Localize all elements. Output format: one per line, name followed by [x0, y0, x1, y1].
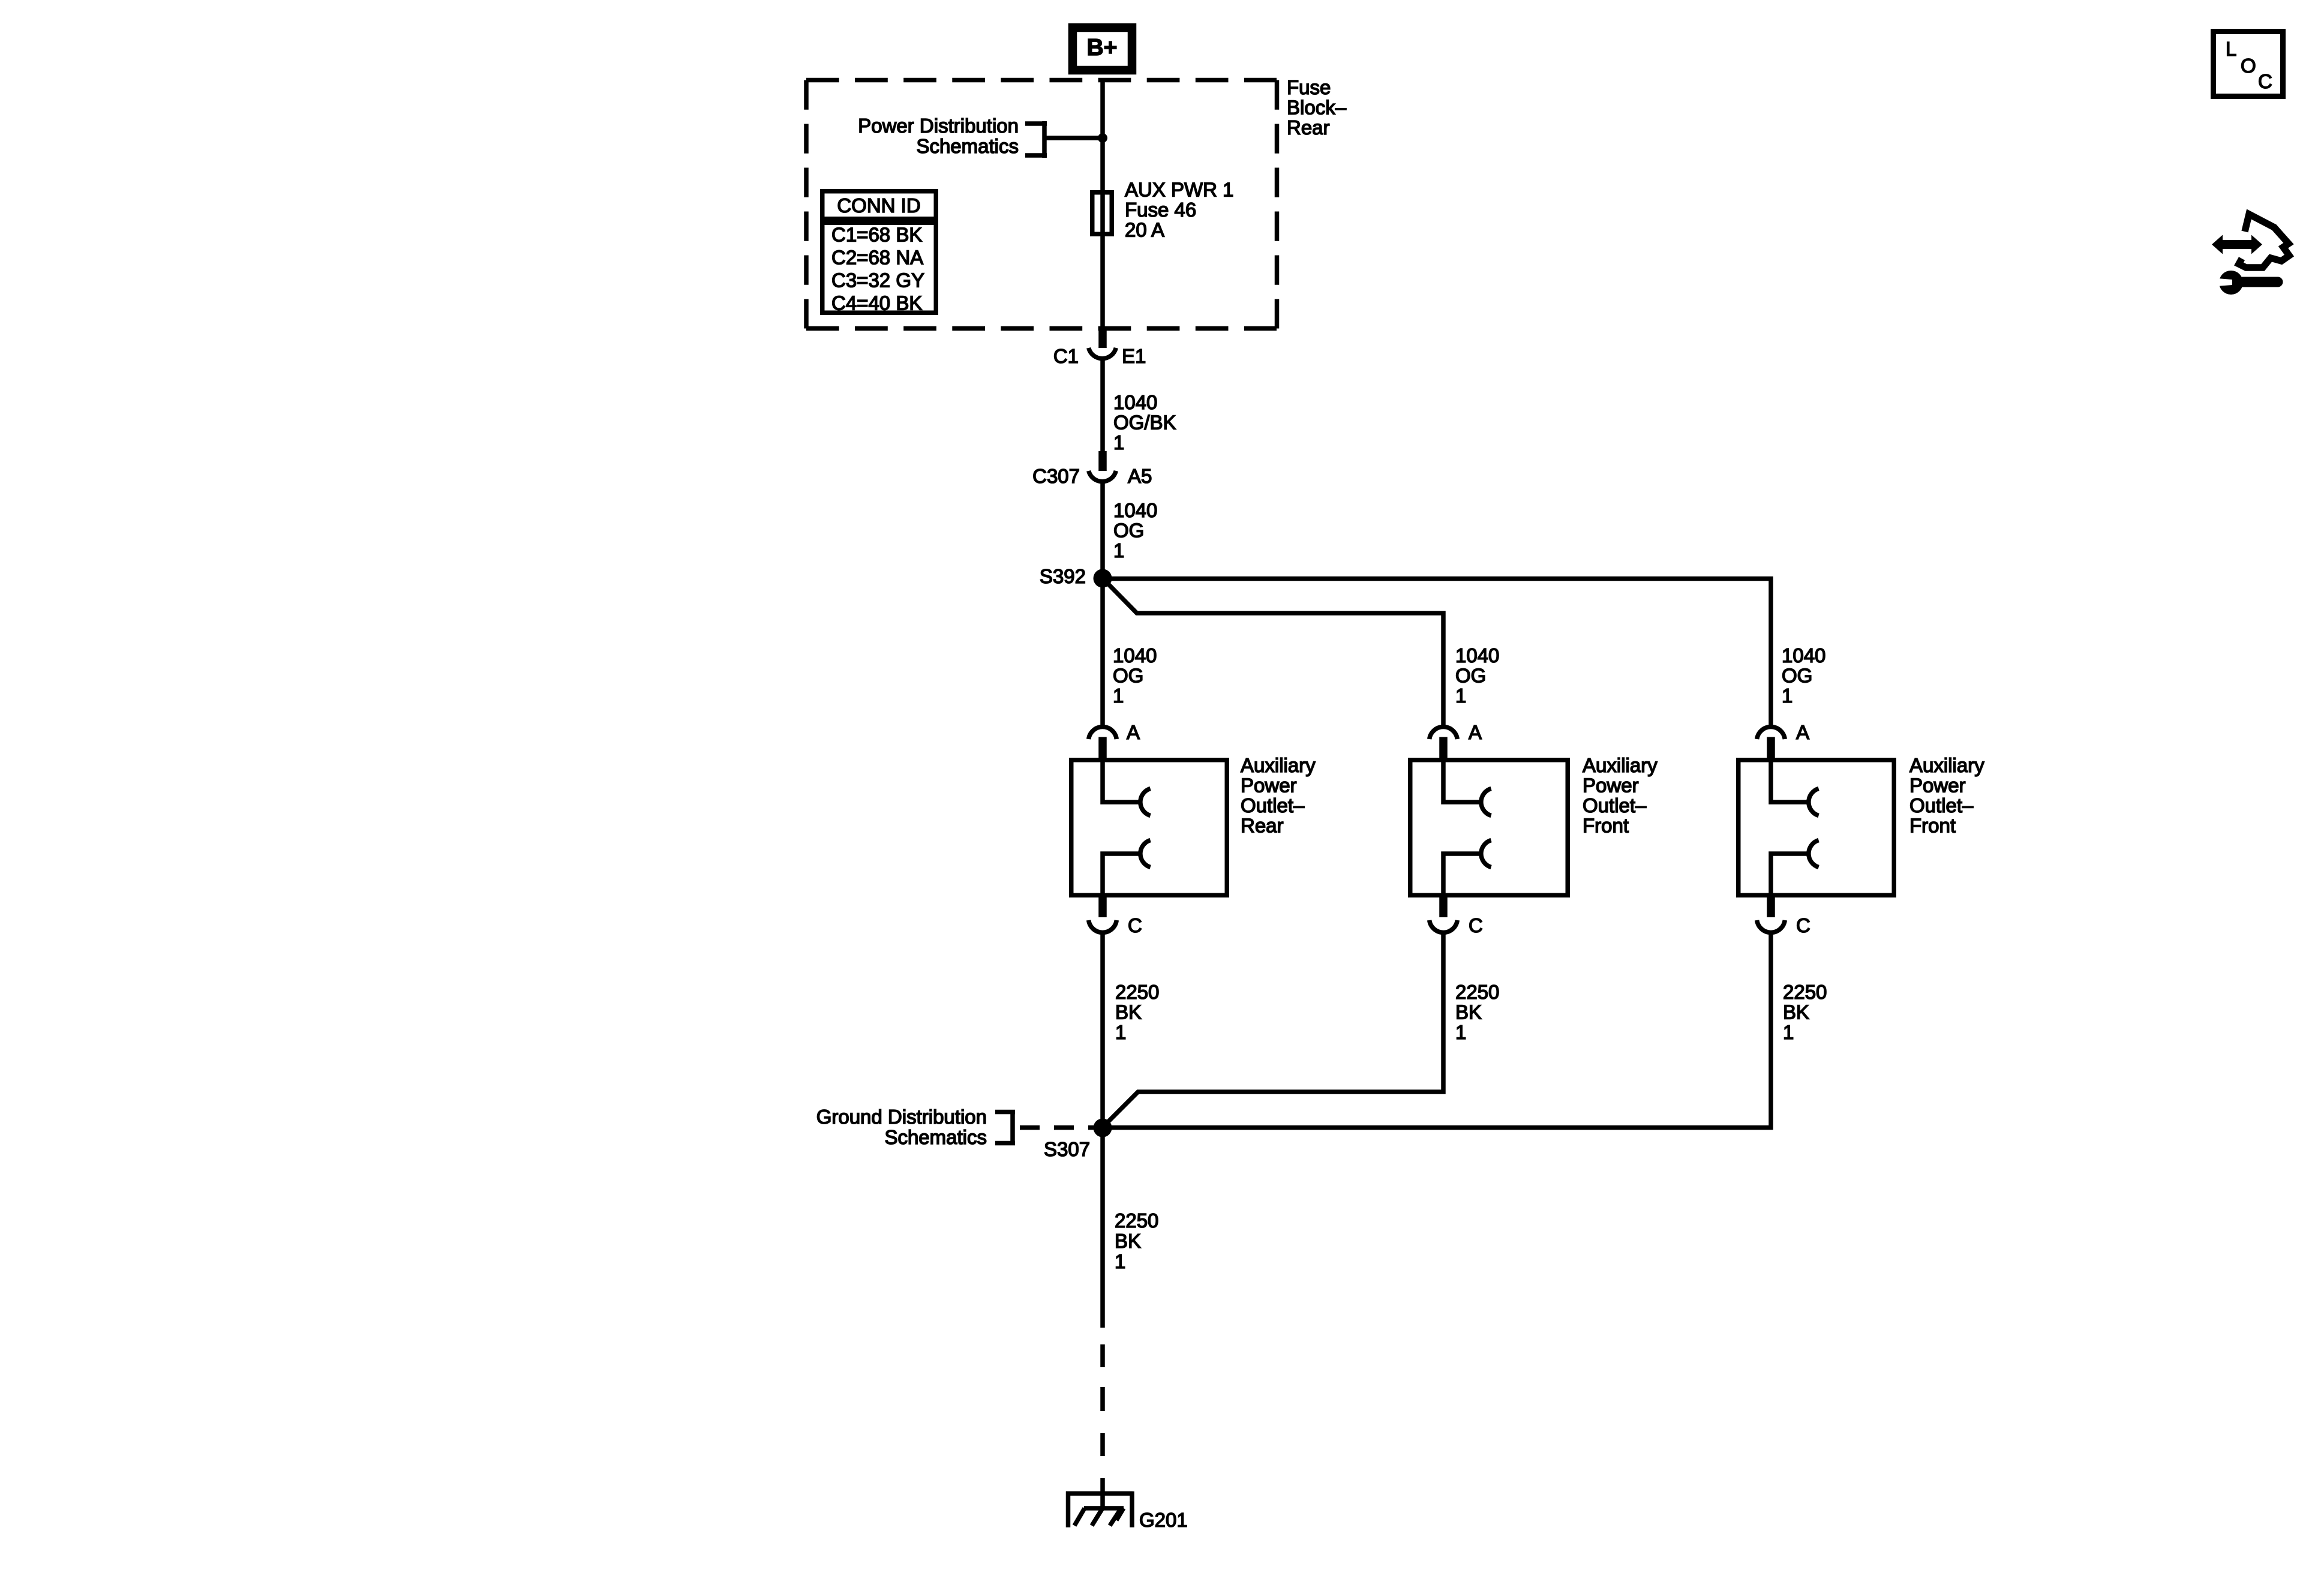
svg-text:1: 1 — [1113, 685, 1124, 707]
svg-text:1040: 1040 — [1782, 644, 1825, 667]
dashed wire segment to G201 — [1100, 1344, 1105, 1508]
svg-text:1040: 1040 — [1113, 499, 1157, 521]
svg-text:Power: Power — [1241, 775, 1297, 797]
svg-text:OG/BK: OG/BK — [1113, 412, 1176, 434]
label Auxiliary Power Outlet-Front (right) — [1909, 754, 1984, 837]
svg-text:A: A — [1469, 721, 1482, 743]
ground G201 — [1066, 1491, 1133, 1527]
connector C1 / E1 — [1089, 348, 1116, 359]
svg-text:Outlet–: Outlet– — [1583, 794, 1647, 816]
svg-text:Auxiliary: Auxiliary — [1241, 754, 1316, 776]
label Auxiliary Power Outlet-Rear — [1241, 754, 1316, 837]
connector A (right outlet) — [1757, 721, 1809, 759]
svg-text:S392: S392 — [1040, 565, 1086, 587]
wire fuse to C1 — [1100, 236, 1105, 329]
label 2250 BK 1 (middle column) — [1455, 981, 1499, 1043]
wire C307 to S392, 1040 OG — [1100, 484, 1105, 579]
Auxiliary Power Outlet - Front box (middle) — [1410, 758, 1568, 897]
svg-text:20 A: 20 A — [1125, 219, 1164, 241]
wire C1 to C307, 1040 OG/BK — [1100, 361, 1105, 453]
svg-text:Front: Front — [1909, 815, 1956, 837]
svg-text:BK: BK — [1783, 1001, 1809, 1023]
svg-text:CONN ID: CONN ID — [837, 194, 920, 217]
wire B+ down through fuse block — [1100, 79, 1105, 190]
splice S392 — [1094, 569, 1112, 588]
svg-text:Rear: Rear — [1287, 116, 1330, 139]
svg-text:C3=32 GY: C3=32 GY — [831, 269, 924, 292]
CONN ID table — [820, 191, 938, 314]
connector C1/E1 pin stub — [1098, 328, 1107, 348]
label Auxiliary Power Outlet-Front (middle) — [1583, 754, 1658, 837]
svg-text:E1: E1 — [1122, 345, 1146, 367]
diagnostic icon (arrow into connector + wrench) — [2212, 214, 2289, 295]
label 1040 OG 1 — [1113, 499, 1157, 562]
svg-text:1040: 1040 — [1113, 644, 1157, 667]
Auxiliary Power Outlet - Rear box — [1071, 758, 1227, 897]
svg-text:OG: OG — [1782, 665, 1812, 687]
B+ power symbol — [1073, 28, 1132, 70]
svg-text:C4=40 BK: C4=40 BK — [831, 292, 922, 314]
svg-text:A: A — [1127, 721, 1140, 743]
wire S392 to right outlet (top branch) — [1103, 579, 1771, 728]
label 2250 BK 1 (left column) — [1115, 981, 1159, 1043]
svg-text:C1: C1 — [1053, 345, 1079, 367]
junction node on B+ feed — [1098, 133, 1107, 143]
svg-text:Front: Front — [1583, 815, 1629, 837]
svg-text:C307: C307 — [1032, 465, 1080, 487]
connector A (left outlet) — [1089, 721, 1140, 759]
wire S307 to ground, 2250 BK — [1100, 1128, 1105, 1328]
svg-text:G201: G201 — [1139, 1509, 1188, 1531]
svg-text:1040: 1040 — [1455, 644, 1499, 667]
svg-text:A5: A5 — [1128, 465, 1152, 487]
svg-text:Schematics: Schematics — [884, 1126, 987, 1148]
label Fuse Block-Rear — [1287, 76, 1347, 139]
connector A (middle outlet) — [1430, 721, 1482, 759]
svg-text:1: 1 — [1783, 1021, 1794, 1043]
svg-text:C: C — [1469, 914, 1483, 936]
svg-text:Schematics: Schematics — [916, 135, 1019, 157]
label 2250 BK 1 (right column) — [1783, 981, 1827, 1043]
svg-text:Outlet–: Outlet– — [1241, 794, 1305, 816]
label AUX PWR 1 / Fuse 46 / 20 A — [1125, 179, 1234, 241]
svg-text:1: 1 — [1455, 685, 1466, 707]
svg-text:Fuse: Fuse — [1287, 76, 1331, 98]
svg-text:AUX PWR 1: AUX PWR 1 — [1125, 179, 1234, 201]
svg-text:Block–: Block– — [1287, 97, 1347, 119]
svg-text:S307: S307 — [1044, 1138, 1090, 1160]
svg-text:BK: BK — [1455, 1001, 1482, 1023]
svg-text:OG: OG — [1113, 520, 1144, 542]
bracket for Ground Distribution Schematics — [995, 1110, 1094, 1145]
svg-text:1: 1 — [1113, 431, 1124, 454]
label 1040 OG/BK 1 — [1113, 391, 1176, 454]
wire left outlet C to S307 — [1100, 933, 1105, 1128]
wire S392 down to left outlet — [1100, 578, 1105, 727]
svg-text:BK: BK — [1115, 1001, 1142, 1023]
svg-text:2250: 2250 — [1455, 981, 1499, 1003]
svg-text:C2=68 NA: C2=68 NA — [831, 247, 923, 269]
svg-text:1: 1 — [1782, 685, 1792, 707]
svg-text:Power: Power — [1909, 775, 1966, 797]
svg-text:Power Distribution: Power Distribution — [858, 115, 1019, 137]
label 1040 OG 1 (right column) — [1782, 644, 1825, 707]
svg-text:1: 1 — [1115, 1021, 1126, 1043]
wire right outlet C to S307 — [1103, 933, 1771, 1128]
svg-text:Fuse 46: Fuse 46 — [1125, 199, 1196, 221]
label 1040 OG 1 (left column) — [1113, 644, 1157, 707]
svg-text:1: 1 — [1455, 1021, 1466, 1043]
svg-text:C: C — [2258, 70, 2272, 92]
svg-text:2250: 2250 — [1783, 981, 1827, 1003]
connector C (middle outlet) — [1430, 897, 1483, 936]
svg-text:C1=68 BK: C1=68 BK — [831, 224, 922, 246]
svg-text:C: C — [1796, 914, 1810, 936]
svg-text:Ground Distribution: Ground Distribution — [816, 1106, 987, 1128]
fuse block dashed box (Fuse Block - Rear) — [806, 80, 1277, 329]
svg-text:Rear: Rear — [1241, 815, 1284, 837]
svg-text:A: A — [1796, 721, 1809, 743]
LOC icon box — [2214, 32, 2283, 97]
connector C (left outlet) — [1089, 897, 1142, 936]
label 1040 OG 1 (middle column) — [1455, 644, 1499, 707]
Auxiliary Power Outlet - Front box (right) — [1739, 758, 1894, 897]
svg-text:Auxiliary: Auxiliary — [1909, 754, 1984, 776]
svg-text:B+: B+ — [1087, 35, 1118, 61]
svg-text:1: 1 — [1113, 539, 1124, 562]
svg-text:Outlet–: Outlet– — [1909, 794, 1974, 816]
svg-text:2250: 2250 — [1115, 981, 1159, 1003]
svg-text:OG: OG — [1113, 665, 1143, 687]
connector C307 / A5 — [1089, 471, 1116, 482]
fuse AUX PWR 1 Fuse 46 20 A — [1092, 190, 1112, 236]
label Ground Distribution Schematics — [816, 1106, 987, 1148]
svg-text:BK: BK — [1115, 1230, 1141, 1252]
svg-text:2250: 2250 — [1115, 1209, 1158, 1232]
svg-text:Power: Power — [1583, 775, 1639, 797]
connector C307 pin stub — [1098, 451, 1107, 471]
svg-text:Auxiliary: Auxiliary — [1583, 754, 1658, 776]
bracket for Power Distribution Schematics — [1025, 121, 1103, 158]
svg-text:O: O — [2241, 55, 2256, 77]
svg-text:1: 1 — [1115, 1250, 1125, 1272]
splice S307 — [1094, 1119, 1112, 1137]
svg-text:1040: 1040 — [1113, 391, 1157, 413]
svg-text:L: L — [2226, 38, 2236, 60]
wire middle outlet C to S307 — [1104, 933, 1443, 1127]
label Power Distribution Schematics — [858, 115, 1019, 157]
wire S392 to middle outlet (diagonal branch) — [1104, 580, 1443, 727]
label 2250 BK 1 (ground feed) — [1115, 1209, 1158, 1272]
svg-text:OG: OG — [1455, 665, 1486, 687]
connector C (right outlet) — [1757, 897, 1810, 936]
svg-text:C: C — [1128, 914, 1142, 936]
